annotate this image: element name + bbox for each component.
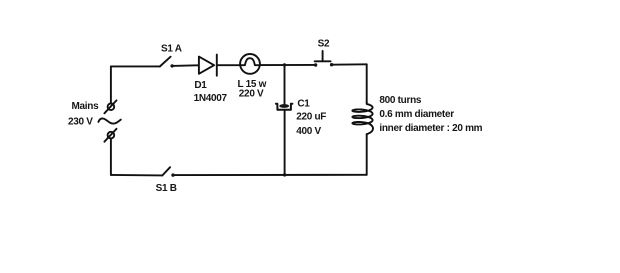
- switch S1B blade: [162, 167, 170, 175]
- node junction top (to C1): [283, 63, 286, 66]
- node junction bottom (from C1): [283, 173, 286, 176]
- svg-text:S1 A: S1 A: [161, 44, 182, 55]
- switch S1A blade: [160, 57, 171, 67]
- pushbutton S2: [314, 51, 333, 67]
- wire top-left horizontal: [111, 65, 160, 67]
- svg-text:800 turns: 800 turns: [379, 95, 422, 106]
- wire bottom horizontal: [173, 174, 367, 176]
- diode D1: [199, 55, 217, 76]
- wire right vertical lower: [366, 134, 368, 175]
- wire left vertical lower: [110, 139, 112, 175]
- svg-text:inner diameter : 20 mm: inner diameter : 20 mm: [379, 123, 482, 134]
- svg-text:1N4007: 1N4007: [194, 93, 228, 104]
- svg-text:0.6 mm diameter: 0.6 mm diameter: [379, 109, 454, 120]
- inductor coil 800 turns: [352, 102, 373, 134]
- svg-text:220 V: 220 V: [239, 89, 264, 100]
- AC source tilde: [98, 118, 120, 123]
- wire S1B to left corner: [111, 174, 162, 177]
- wire S1A to diode: [172, 64, 199, 67]
- node S1B contact dot: [171, 173, 174, 176]
- wire diode to lamp: [217, 64, 240, 66]
- svg-text:S1 B: S1 B: [156, 183, 177, 194]
- wire S2 to right corner: [332, 63, 367, 65]
- svg-text:S2: S2: [318, 39, 330, 50]
- wire right vertical upper: [366, 64, 368, 102]
- svg-text:400 V: 400 V: [296, 126, 321, 137]
- wire lamp to S2: [260, 64, 316, 66]
- node S1A contact dot: [170, 64, 173, 67]
- svg-text:Mains: Mains: [72, 101, 100, 112]
- mains terminal top (circle with slash): [104, 100, 116, 113]
- svg-text:D1: D1: [194, 80, 207, 91]
- svg-text:C1: C1: [297, 99, 310, 110]
- wire middle vertical upper (junction to C1): [284, 65, 286, 104]
- capacitor C1: [276, 104, 293, 110]
- svg-text:230 V: 230 V: [68, 117, 93, 128]
- wire left vertical upper: [110, 66, 112, 103]
- lamp L (circle with filament hump): [240, 54, 260, 74]
- svg-text:220 uF: 220 uF: [296, 112, 326, 123]
- mains terminal bottom (circle with slash): [104, 129, 116, 142]
- wire middle vertical lower (C1 to bottom): [284, 110, 286, 175]
